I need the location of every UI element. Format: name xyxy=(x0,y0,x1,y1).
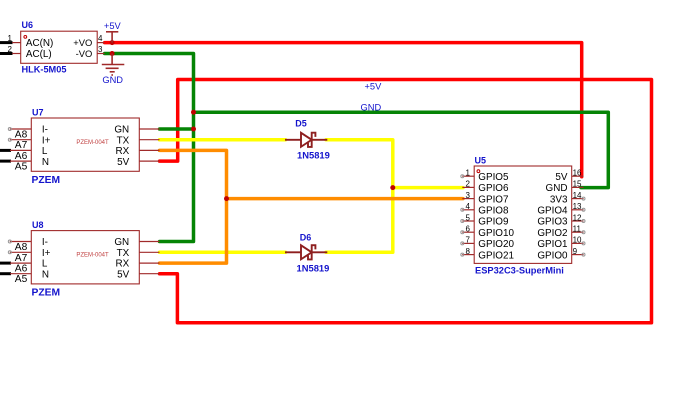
U6 pin 1 stub xyxy=(12,42,21,44)
wire black U8 N input xyxy=(0,272,11,275)
svg-text:PZEM-004T: PZEM-004T xyxy=(76,253,109,259)
svg-text:GPIO21: GPIO21 xyxy=(478,250,514,261)
svg-text:GPIO2: GPIO2 xyxy=(537,228,567,239)
wire black U7 N input xyxy=(0,160,11,163)
junction dot +5V at U6 xyxy=(110,40,115,45)
U7 pin TX stub xyxy=(139,139,159,141)
svg-text:6: 6 xyxy=(466,225,471,234)
svg-text:15: 15 xyxy=(573,180,582,189)
svg-text:5V: 5V xyxy=(117,269,129,280)
U5 left pin numbers xyxy=(466,169,471,256)
U7 pin I- stub xyxy=(10,128,32,130)
svg-text:5V: 5V xyxy=(117,157,129,168)
U7 pin N stub xyxy=(10,160,31,162)
svg-text:GPIO20: GPIO20 xyxy=(478,239,514,250)
svg-text:GPIO1: GPIO1 xyxy=(537,239,568,250)
svg-text:U7: U7 xyxy=(32,108,44,118)
U8 pin RX stub xyxy=(139,262,159,264)
svg-text:GPIO9: GPIO9 xyxy=(478,217,509,228)
MCU U5 ESP32C3-SuperMini xyxy=(461,156,585,276)
svg-text:D5: D5 xyxy=(295,119,307,129)
svg-text:1N5819: 1N5819 xyxy=(297,150,330,161)
U7 pin I+ open circle xyxy=(8,138,11,141)
U8 pin I+ open circle xyxy=(8,251,11,254)
wire orange junction to U5 GPIO7 pin3 xyxy=(227,197,464,201)
svg-text:L: L xyxy=(42,146,48,157)
svg-text:AC(L): AC(L) xyxy=(26,49,52,60)
wire yellow D5 cathode to GPIO6 junction xyxy=(326,140,393,253)
svg-text:16: 16 xyxy=(573,169,582,178)
junction dot green U7 GN branch xyxy=(191,127,196,132)
svg-text:A7: A7 xyxy=(15,140,28,151)
svg-text:14: 14 xyxy=(573,191,582,200)
svg-text:L: L xyxy=(42,259,48,270)
svg-text:A8: A8 xyxy=(15,130,28,141)
svg-text:+5V: +5V xyxy=(104,21,122,31)
svg-text:U8: U8 xyxy=(32,220,44,230)
svg-text:RX: RX xyxy=(115,146,129,157)
wire yellow U7 TX to D5 anode xyxy=(160,138,286,142)
wire green GND bus to U5 GND pin15 xyxy=(194,112,609,187)
U8 pin L stub xyxy=(10,262,31,264)
U8 pin I- open circle xyxy=(8,240,11,243)
svg-text:GN: GN xyxy=(114,237,129,248)
svg-text:9: 9 xyxy=(573,247,578,256)
svg-text:I+: I+ xyxy=(42,135,51,146)
svg-text:GPIO7: GPIO7 xyxy=(478,194,508,205)
svg-text:PZEM-004T: PZEM-004T xyxy=(76,140,109,146)
U7 pin I+ stub xyxy=(10,139,32,141)
wire black U7 L input xyxy=(0,149,11,152)
svg-text:A7: A7 xyxy=(15,253,28,264)
junction dot yellow GPIO6 branch xyxy=(390,185,395,190)
U5 right pin numbers xyxy=(573,169,582,256)
svg-text:A6: A6 xyxy=(15,264,28,275)
U8 pin N stub xyxy=(10,273,31,275)
svg-text:4: 4 xyxy=(466,202,471,211)
svg-text:7: 7 xyxy=(466,236,471,245)
svg-text:TX: TX xyxy=(117,248,130,259)
U5 left unconnected circles xyxy=(461,175,464,256)
wire orange U7 RX down to U8 RX xyxy=(160,150,227,263)
svg-text:11: 11 xyxy=(573,225,582,234)
svg-text:PZEM: PZEM xyxy=(32,288,61,299)
svg-text:3: 3 xyxy=(466,191,471,200)
module U8 PZEM-004T xyxy=(8,220,159,299)
svg-text:2: 2 xyxy=(8,45,13,54)
svg-text:1N5819: 1N5819 xyxy=(297,263,330,274)
svg-text:GPIO6: GPIO6 xyxy=(478,183,509,194)
svg-text:5V: 5V xyxy=(555,172,567,183)
svg-text:GPIO5: GPIO5 xyxy=(478,172,509,183)
U8 pin GN stub xyxy=(139,241,159,243)
svg-text:12: 12 xyxy=(573,213,582,222)
svg-text:1: 1 xyxy=(466,169,471,178)
module U7 PZEM-004T xyxy=(8,108,159,187)
junction dot GND at U6 xyxy=(110,51,115,56)
U7 pin GN stub xyxy=(139,128,159,130)
svg-text:+VO: +VO xyxy=(73,37,92,48)
svg-text:N: N xyxy=(42,269,49,280)
svg-text:5: 5 xyxy=(466,213,471,222)
svg-text:GN: GN xyxy=(114,125,129,136)
svg-text:GND: GND xyxy=(102,75,123,85)
svg-text:GPIO4: GPIO4 xyxy=(537,206,568,217)
svg-text:GPIO8: GPIO8 xyxy=(478,206,509,217)
svg-text:A6: A6 xyxy=(15,151,28,162)
wire black U8 L input xyxy=(0,262,11,265)
wire yellow U8 TX to D6 anode xyxy=(160,251,286,255)
U8 pin 5V stub xyxy=(139,273,159,275)
U5 pin1 indicator xyxy=(477,170,480,173)
svg-text:I-: I- xyxy=(42,125,48,136)
svg-text:2: 2 xyxy=(466,180,471,189)
svg-text:GPIO10: GPIO10 xyxy=(478,228,514,239)
svg-text:A5: A5 xyxy=(15,274,28,285)
power symbol +5V xyxy=(106,32,118,43)
U7 pin RX stub xyxy=(139,149,159,151)
U6 pin1 indicator xyxy=(24,36,27,39)
U8 pin I- stub xyxy=(10,241,32,243)
svg-text:I+: I+ xyxy=(42,248,51,259)
U6 pin 2 stub xyxy=(12,53,21,55)
U7 pin L stub xyxy=(10,149,31,151)
svg-text:ESP32C3-SuperMini: ESP32C3-SuperMini xyxy=(475,266,564,276)
svg-text:13: 13 xyxy=(573,202,582,211)
ground symbol GND xyxy=(102,54,125,76)
U8 pin I+ stub xyxy=(10,251,32,253)
svg-text:N: N xyxy=(42,157,49,168)
junction dot green GND bus branch xyxy=(191,110,196,115)
wire black AC(N) input to U6 pin1 xyxy=(0,41,13,44)
U5 right stubs pins 16-9 xyxy=(572,176,584,254)
wire red +5V bus to U7 5V pin xyxy=(160,80,652,323)
svg-text:I-: I- xyxy=(42,237,48,248)
svg-text:RX: RX xyxy=(115,259,129,270)
svg-text:D6: D6 xyxy=(300,233,312,243)
svg-text:GND: GND xyxy=(361,103,382,113)
wire black AC(L) input to U6 pin2 xyxy=(0,52,13,55)
svg-text:A5: A5 xyxy=(15,162,28,173)
svg-text:AC(N): AC(N) xyxy=(26,38,53,49)
U5 left pin names xyxy=(478,172,514,261)
svg-text:GPIO3: GPIO3 xyxy=(537,217,568,228)
svg-text:TX: TX xyxy=(117,135,130,146)
svg-text:-VO: -VO xyxy=(76,48,93,59)
svg-text:10: 10 xyxy=(573,236,582,245)
svg-text:3: 3 xyxy=(98,45,103,54)
U5 left stubs pins 1-8 xyxy=(462,176,474,254)
wire green U7 GN branch xyxy=(160,127,194,131)
svg-text:GPIO0: GPIO0 xyxy=(537,250,568,261)
svg-text:1: 1 xyxy=(8,34,13,43)
wire yellow junction to U5 GPIO6 pin2 xyxy=(393,186,463,190)
U7 pin 5V stub xyxy=(139,160,159,162)
svg-text:PZEM: PZEM xyxy=(32,175,61,186)
svg-text:3V3: 3V3 xyxy=(550,194,568,205)
wire red +5V from U6 +VO to U5 5V pin16 xyxy=(105,43,582,177)
svg-text:U6: U6 xyxy=(22,20,34,30)
svg-text:+5V: +5V xyxy=(365,82,383,92)
U6 pin 3 stub xyxy=(97,53,104,55)
svg-text:A8: A8 xyxy=(15,242,28,253)
wire green GND from U6 -VO down to U8 GN xyxy=(105,54,194,242)
U7 pin I- open circle xyxy=(8,128,11,131)
U5 right pin names xyxy=(537,172,568,261)
svg-text:GND: GND xyxy=(546,183,568,194)
diode D5 1N5819 xyxy=(285,133,327,147)
svg-text:4: 4 xyxy=(98,34,103,43)
U6 pin 4 stub xyxy=(97,42,104,44)
svg-text:HLK-5M05: HLK-5M05 xyxy=(22,65,67,75)
U8 pin TX stub xyxy=(139,251,159,253)
junction dot orange GPIO7 branch xyxy=(224,196,229,201)
regulator U6 HLK-5M05 xyxy=(8,20,105,75)
diode D6 1N5819 xyxy=(285,245,327,259)
svg-text:U5: U5 xyxy=(475,156,487,166)
svg-text:8: 8 xyxy=(466,247,471,256)
U5 right unconnected circles xyxy=(582,197,585,256)
